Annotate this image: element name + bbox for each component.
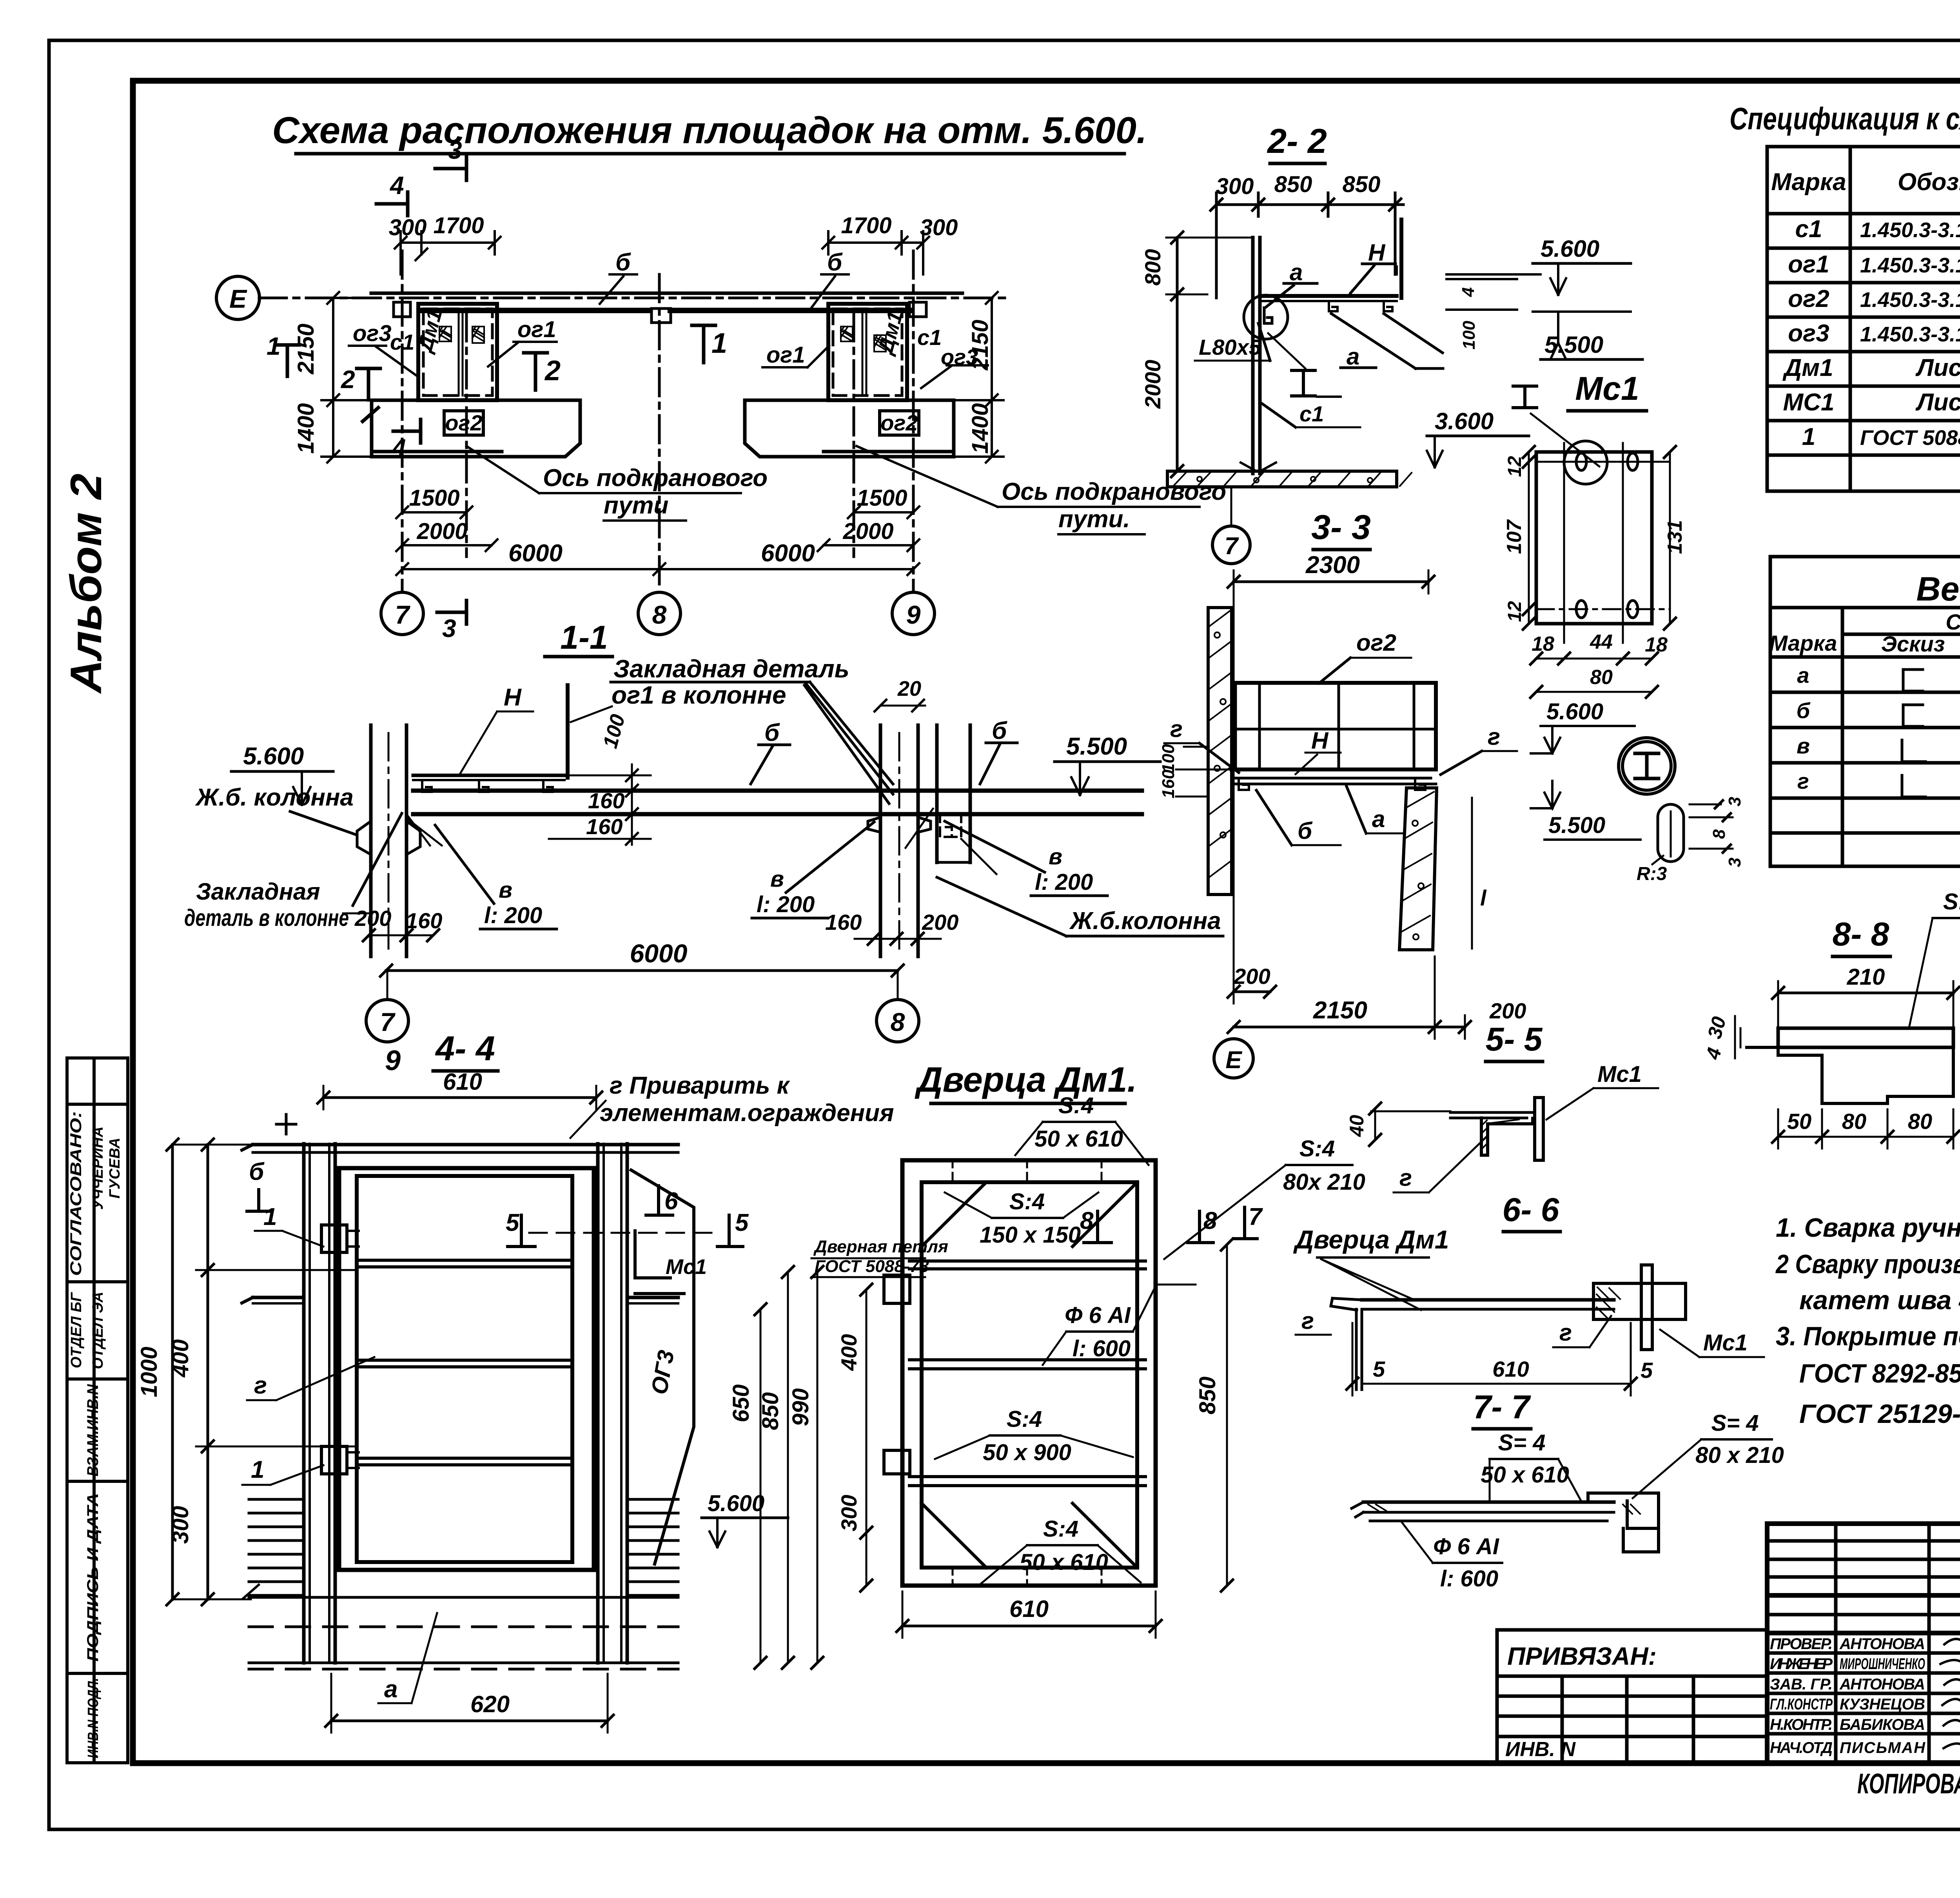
svg-text:ПРОВЕР.: ПРОВЕР. — [1770, 1635, 1833, 1653]
section flag 3 top — [435, 157, 466, 180]
vedomost sketches — [1902, 670, 1926, 797]
svg-text:5.500: 5.500 — [1066, 733, 1127, 760]
svg-text:АНТОНОВА: АНТОНОВА — [1839, 1676, 1925, 1693]
svg-text:пути.: пути. — [1058, 506, 1130, 533]
svg-text:S:4: S:4 — [1043, 1516, 1078, 1542]
svg-text:2000: 2000 — [416, 519, 467, 544]
svg-text:АНТОНОВА: АНТОНОВА — [1839, 1635, 1925, 1653]
svg-text:1.450.3-3.1 5.1.0.1.0: 1.450.3-3.1 5.1.0.1.0 — [1860, 323, 1960, 346]
svg-text:7: 7 — [395, 600, 411, 629]
svg-text:1000: 1000 — [136, 1346, 162, 1397]
I section mark — [1513, 386, 1537, 408]
svg-text:г: г — [1559, 1319, 1572, 1346]
svg-text:Спецификация к схеме расположе: Спецификация к схеме расположения площад… — [1730, 101, 1960, 136]
crane rail axis right — [853, 314, 855, 557]
vertical dim 2150/1400 right — [991, 298, 993, 457]
svg-text:8: 8 — [652, 600, 667, 629]
dash marks top/bottom bands — [953, 1160, 1102, 1586]
left platform dashed inner — [423, 309, 492, 396]
privyazan block — [1497, 1630, 1767, 1763]
svg-text:850: 850 — [1274, 172, 1312, 197]
circle E — [1214, 1039, 1253, 1078]
svg-text:ог3: ог3 — [353, 321, 392, 346]
svg-text:300: 300 — [1216, 174, 1254, 199]
svg-text:ГОСТ 25129- 82.: ГОСТ 25129- 82. — [1799, 1399, 1960, 1429]
svg-text:L80х5: L80х5 — [1199, 335, 1261, 359]
ladder rungs left — [249, 1499, 304, 1595]
right platform outer — [828, 304, 907, 400]
top rail — [253, 1143, 678, 1147]
svg-text:44: 44 — [1590, 631, 1613, 653]
dim 2000 left — [402, 544, 492, 546]
grid line E — [259, 297, 1011, 299]
svg-text:Дверца Дм1.: Дверца Дм1. — [915, 1060, 1137, 1100]
svg-text:160: 160 — [586, 814, 622, 839]
axis 8 — [658, 274, 661, 591]
svg-text:3.600: 3.600 — [1435, 408, 1494, 434]
right posts — [596, 1144, 600, 1663]
svg-text:ПРИВЯЗАН:: ПРИВЯЗАН: — [1507, 1642, 1657, 1670]
svg-text:Дверца Дм1: Дверца Дм1 — [1293, 1225, 1449, 1254]
svg-text:Ф 6 АI: Ф 6 АI — [1065, 1303, 1131, 1328]
svg-text:3: 3 — [448, 136, 462, 164]
svg-text:300: 300 — [920, 215, 958, 240]
svg-text:l: 600: l: 600 — [1073, 1336, 1131, 1361]
svg-text:1700: 1700 — [841, 213, 891, 238]
svg-text:850: 850 — [1195, 1377, 1220, 1415]
dims 5 610 5 — [1364, 1383, 1631, 1385]
left column — [369, 725, 373, 956]
svg-text:50 х 610: 50 х 610 — [1481, 1462, 1569, 1488]
svg-text:б: б — [249, 1158, 265, 1185]
angle bracket hatched — [1450, 1112, 1533, 1118]
signatures scribbles — [1940, 1638, 1960, 1749]
svg-text:Схема расположения площадок на: Схема расположения площадок на отм. 5.60… — [272, 109, 1147, 151]
circle 7 — [366, 1000, 408, 1042]
svg-text:1: 1 — [267, 332, 281, 360]
svg-text:б: б — [615, 249, 631, 276]
svg-text:ГУСЕВА: ГУСЕВА — [107, 1138, 123, 1198]
svg-text:Ж.б.колонна: Ж.б.колонна — [1069, 907, 1221, 934]
svg-text:2000: 2000 — [1140, 360, 1165, 409]
svg-text:ГОСТ 8292-85 за 2раза по грунт: ГОСТ 8292-85 за 2раза по грунтовке ГФ 02… — [1799, 1359, 1960, 1388]
svg-text:200: 200 — [1233, 964, 1270, 989]
right lower platform og2 — [745, 400, 954, 457]
svg-text:5.600: 5.600 — [243, 743, 304, 770]
svg-text:МИРОШНИЧЕНКО: МИРОШНИЧЕНКО — [1840, 1655, 1925, 1673]
dim 210 — [1778, 992, 1953, 994]
mc1 plate — [1535, 1098, 1543, 1160]
left angle — [1331, 1298, 1362, 1310]
svg-text:Лист 14: Лист 14 — [1915, 354, 1960, 381]
svg-text:ВЗАМ.ИНВ.N: ВЗАМ.ИНВ.N — [84, 1384, 102, 1476]
svg-text:5.600: 5.600 — [1546, 699, 1603, 724]
dim 1700/300 right — [828, 241, 923, 244]
svg-text:12: 12 — [1504, 456, 1525, 477]
svg-text:ПОДПИСЬ И ДАТА: ПОДПИСЬ И ДАТА — [84, 1493, 102, 1662]
svg-text:в: в — [1049, 844, 1062, 869]
svg-text:Обозначение: Обозначение — [1898, 169, 1960, 196]
svg-text:Н.КОНТР.: Н.КОНТР. — [1770, 1716, 1833, 1733]
svg-text:l: 200: l: 200 — [484, 903, 542, 928]
svg-text:1.450.3-3.1 3.1.0.1.0 -01: 1.450.3-3.1 3.1.0.1.0 -01 — [1860, 218, 1960, 242]
svg-text:Альбом 2: Альбом 2 — [62, 474, 111, 694]
plate layers — [1363, 1501, 1614, 1504]
svg-text:80: 80 — [1590, 666, 1613, 689]
corbel details left — [357, 821, 420, 855]
stremyanka post — [1251, 238, 1255, 474]
svg-text:S= 4: S= 4 — [1498, 1430, 1546, 1455]
svg-text:МС1: МС1 — [1783, 389, 1835, 416]
bottom dim 610 — [902, 1625, 1156, 1628]
svg-text:ог3: ог3 — [1788, 320, 1829, 347]
svg-text:8: 8 — [1710, 829, 1729, 839]
svg-text:80: 80 — [1908, 1109, 1932, 1134]
svg-text:S:4: S:4 — [1058, 1093, 1094, 1118]
section flag 2 lower left — [363, 408, 378, 421]
svg-text:Лист 14: Лист 14 — [1915, 389, 1960, 416]
svg-text:5.500: 5.500 — [1548, 813, 1605, 838]
left stamp column — [67, 1058, 128, 1763]
small ticks upper left — [276, 1114, 296, 1134]
dim 6000 — [386, 969, 898, 972]
axis 9 — [912, 251, 915, 591]
svg-text:Н: Н — [1368, 240, 1386, 266]
crane rail axis left — [465, 314, 468, 557]
svg-text:210: 210 — [1847, 964, 1885, 990]
plan dimensions — [267, 136, 1004, 642]
svg-text:1: 1 — [251, 1456, 264, 1483]
rails to left of posts — [253, 1296, 304, 1299]
svg-text:1400: 1400 — [293, 403, 319, 454]
svg-text:2150: 2150 — [1313, 997, 1367, 1024]
svg-text:1: 1 — [263, 1203, 277, 1230]
svg-text:610: 610 — [443, 1069, 482, 1095]
svg-text:БАБИКОВА: БАБИКОВА — [1840, 1716, 1925, 1733]
c-channel clips — [422, 780, 553, 792]
svg-text:9: 9 — [385, 1045, 401, 1076]
column below — [1399, 788, 1437, 950]
hatch squares right — [841, 327, 886, 352]
svg-text:6000: 6000 — [761, 540, 815, 567]
plan labels — [349, 249, 1226, 534]
svg-text:200: 200 — [1489, 998, 1526, 1023]
svg-text:3: 3 — [442, 614, 456, 642]
svg-text:Н: Н — [1311, 728, 1329, 754]
svg-text:6000: 6000 — [630, 939, 688, 968]
svg-text:S:4: S:4 — [1299, 1136, 1335, 1161]
circled I-beam symbol — [1619, 738, 1675, 794]
svg-text:НАЧ.ОТД: НАЧ.ОТД — [1770, 1739, 1833, 1756]
svg-text:Закладная: Закладная — [196, 878, 320, 905]
top plate — [1778, 1028, 1953, 1047]
svg-text:г Приварить к: г Приварить к — [610, 1072, 790, 1099]
svg-text:2000: 2000 — [842, 519, 893, 544]
svg-text:Е: Е — [1225, 1047, 1242, 1074]
plate — [1536, 452, 1652, 624]
svg-text:1500: 1500 — [409, 485, 459, 511]
svg-text:6: 6 — [664, 1188, 678, 1215]
svg-text:12: 12 — [1504, 601, 1525, 622]
right notch — [909, 302, 926, 317]
svg-text:ог2: ог2 — [1356, 630, 1396, 656]
svg-text:990: 990 — [788, 1388, 813, 1426]
left notch — [394, 302, 410, 317]
hinges — [884, 1275, 910, 1303]
svg-text:деталь в колонне: деталь в колонне — [184, 905, 349, 931]
svg-text:ИНВ.N ПОДЛ.: ИНВ.N ПОДЛ. — [85, 1678, 102, 1758]
left small dims — [1176, 769, 1232, 771]
bottom dims — [1234, 991, 1270, 993]
dim 1500 right — [854, 511, 913, 514]
specification table — [1767, 147, 1960, 491]
level marks 5.600/5.500 под МС1 — [1531, 699, 1641, 840]
platform 2-2 — [1260, 294, 1397, 298]
svg-text:160: 160 — [825, 910, 862, 934]
svg-text:Ось подкранового: Ось подкранового — [543, 465, 768, 492]
mc1 bracket top right — [635, 1231, 670, 1278]
svg-text:S= 4: S= 4 — [1711, 1410, 1759, 1436]
svg-text:Ф 6 АI: Ф 6 АI — [1433, 1534, 1500, 1559]
svg-text:Сечение: Сечение — [1945, 610, 1960, 634]
hatch squares left — [439, 327, 484, 343]
svg-text:ГЛ.КОНСТР: ГЛ.КОНСТР — [1770, 1696, 1833, 1713]
svg-text:2- 2: 2- 2 — [1267, 122, 1327, 160]
svg-text:а: а — [1290, 259, 1303, 285]
svg-text:6000: 6000 — [508, 540, 563, 567]
svg-text:300: 300 — [168, 1506, 193, 1544]
right step block — [1588, 1493, 1659, 1552]
center notch — [652, 308, 671, 323]
svg-text:2: 2 — [544, 355, 561, 386]
svg-text:50: 50 — [1787, 1109, 1811, 1134]
svg-text:850: 850 — [1343, 172, 1381, 197]
svg-text:7: 7 — [380, 1007, 396, 1036]
platform rail top left — [413, 774, 564, 777]
left lower platform og2 — [372, 400, 580, 457]
wall hatched — [1208, 608, 1232, 895]
svg-text:5.600: 5.600 — [708, 1491, 764, 1516]
svg-text:1.450.3-3.1 5.1.0 1.0 -04: 1.450.3-3.1 5.1.0 1.0 -04 — [1860, 288, 1960, 312]
svg-text:5.500: 5.500 — [1544, 332, 1603, 358]
svg-text:элементам.ограждения: элементам.ограждения — [600, 1100, 894, 1127]
svg-text:100: 100 — [1459, 321, 1479, 350]
svg-text:80: 80 — [1842, 1109, 1866, 1134]
svg-text:8- 8: 8- 8 — [1833, 916, 1889, 953]
svg-text:R:3: R:3 — [1637, 864, 1667, 884]
svg-text:б: б — [992, 717, 1007, 744]
svg-text:Эскиз: Эскиз — [1881, 631, 1945, 656]
svg-text:Мс1: Мс1 — [1597, 1062, 1642, 1087]
svg-text:ИНВ. N: ИНВ. N — [1505, 1738, 1576, 1761]
svg-text:ПИСЬМАН: ПИСЬМАН — [1840, 1739, 1926, 1756]
svg-text:в: в — [770, 866, 784, 892]
svg-text:1.450.3-3.1 5.1.0.1.0-05: 1.450.3-3.1 5.1.0.1.0-05 — [1860, 254, 1960, 277]
right assembly — [1593, 1283, 1686, 1319]
svg-text:7- 7: 7- 7 — [1473, 1388, 1531, 1425]
svg-text:2: 2 — [341, 365, 355, 394]
dim 610 top — [323, 1096, 596, 1099]
svg-text:850: 850 — [758, 1392, 783, 1430]
svg-text:г: г — [1797, 769, 1809, 793]
svg-text:610: 610 — [1009, 1596, 1049, 1622]
left dims — [207, 1145, 209, 1599]
svg-text:4: 4 — [391, 434, 406, 462]
beam 1-1 — [413, 789, 1142, 793]
svg-text:ог1: ог1 — [766, 342, 805, 368]
svg-text:4: 4 — [1459, 287, 1478, 297]
corbel right — [868, 817, 931, 832]
og2 label box right — [880, 411, 919, 435]
svg-text:S:4: S:4 — [1009, 1189, 1045, 1214]
II symbol — [1292, 370, 1315, 396]
svg-text:а: а — [1347, 343, 1359, 370]
ladder rungs right — [627, 1499, 678, 1595]
svg-text:катет шва 4мм.: катет шва 4мм. — [1799, 1285, 1960, 1315]
svg-text:Мс1: Мс1 — [666, 1255, 707, 1279]
svg-text:1-1: 1-1 — [560, 619, 608, 656]
dim 620 bottom — [331, 1720, 608, 1722]
corner diagonals — [922, 1182, 1137, 1568]
og2 label box left — [444, 411, 483, 435]
section flag 3 bottom — [437, 601, 466, 624]
svg-text:ог1 в колонне: ог1 в колонне — [612, 681, 786, 709]
svg-text:ЗАВ. ГР.: ЗАВ. ГР. — [1770, 1676, 1833, 1693]
svg-text:3: 3 — [1725, 797, 1744, 806]
svg-text:г: г — [1170, 716, 1183, 742]
svg-text:ИНЖЕНЕР: ИНЖЕНЕР — [1770, 1655, 1833, 1673]
svg-text:5: 5 — [735, 1209, 749, 1236]
svg-text:800: 800 — [1140, 249, 1165, 285]
40 dim — [1374, 1109, 1376, 1140]
svg-text:Ведомость элементов: Ведомость элементов — [1916, 570, 1960, 608]
door outer — [902, 1160, 1156, 1586]
svg-text:5.600: 5.600 — [1541, 236, 1599, 262]
left platform outer — [418, 304, 497, 400]
svg-text:1: 1 — [1802, 423, 1815, 450]
plate — [1362, 1298, 1614, 1302]
svg-text:г: г — [1399, 1165, 1412, 1191]
diagonal braces — [1331, 314, 1443, 368]
svg-text:г: г — [1301, 1308, 1314, 1334]
section flag 1 left — [276, 345, 299, 376]
bottom dashed region — [249, 1596, 678, 1599]
svg-text:150 х 150: 150 х 150 — [980, 1222, 1081, 1248]
svg-text:8: 8 — [1080, 1207, 1094, 1234]
svg-text:с1: с1 — [1299, 401, 1324, 426]
right dim 850 + 400/300 left — [1226, 1245, 1228, 1586]
horizontal strips — [909, 1259, 1145, 1263]
svg-text:S:4: S:4 — [1007, 1406, 1042, 1432]
svg-text:200: 200 — [922, 910, 958, 934]
svg-text:4: 4 — [389, 171, 404, 200]
svg-text:l: 200: l: 200 — [1035, 869, 1093, 895]
svg-text:Мс1: Мс1 — [1703, 1330, 1748, 1355]
svg-text:50 х 900: 50 х 900 — [983, 1440, 1071, 1465]
svg-text:620: 620 — [470, 1691, 510, 1717]
floor slab — [1167, 471, 1397, 487]
svg-text:20: 20 — [897, 677, 921, 700]
right dims group — [760, 1309, 762, 1663]
svg-text:5: 5 — [1641, 1358, 1653, 1383]
platform deck — [1232, 768, 1436, 771]
svg-text:ГОСТ 5088-78: ГОСТ 5088-78 — [1860, 426, 1960, 450]
dim 2000 right — [824, 544, 913, 546]
grid circle 9 — [892, 592, 935, 635]
holes — [1576, 453, 1586, 470]
svg-text:200: 200 — [354, 906, 391, 931]
svg-text:в: в — [499, 877, 512, 903]
svg-text:ог2: ог2 — [445, 410, 482, 435]
svg-text:пути: пути — [604, 492, 668, 519]
svg-text:1. Сварка ручная дуговая ГОСТ: 1. Сварка ручная дуговая ГОСТ 5264-80. — [1776, 1213, 1960, 1243]
svg-text:1500: 1500 — [857, 485, 907, 511]
svg-text:3. Покрытие поверхностей: масл: 3. Покрытие поверхностей: масляная краск… — [1776, 1321, 1960, 1351]
svg-text:300: 300 — [837, 1495, 861, 1531]
right vertical bar — [1396, 267, 1398, 274]
svg-text:50 х 610: 50 х 610 — [1020, 1550, 1108, 1575]
svg-text:Мс1: Мс1 — [1575, 370, 1639, 407]
svg-text:ог1: ог1 — [517, 317, 556, 342]
svg-text:80х 210: 80х 210 — [1283, 1169, 1365, 1195]
dim 2300 — [1234, 581, 1428, 583]
svg-text:50 х 610: 50 х 610 — [1034, 1126, 1123, 1152]
svg-text:с1: с1 — [1795, 216, 1822, 243]
svg-text:5: 5 — [1373, 1357, 1385, 1381]
grid circle 7 — [381, 592, 423, 635]
svg-text:в: в — [1797, 733, 1810, 758]
svg-text:ог2: ог2 — [1788, 285, 1829, 312]
dim 1500 left — [402, 511, 466, 514]
svg-text:УЧЧЕРИНА: УЧЧЕРИНА — [90, 1127, 106, 1210]
second column right of axis 8 — [935, 725, 939, 862]
door frame — [339, 1168, 594, 1570]
svg-text:S: 4: S: 4 — [1943, 889, 1960, 915]
svg-text:5: 5 — [506, 1209, 520, 1236]
svg-text:КУЗНЕЦОВ: КУЗНЕЦОВ — [1840, 1696, 1925, 1713]
svg-text:б: б — [1797, 698, 1811, 723]
section flag 4 lower — [393, 419, 421, 443]
vertical dim 2150/1400 left — [332, 298, 334, 457]
svg-text:ог1: ог1 — [1788, 251, 1829, 278]
top beam line b — [371, 292, 962, 295]
svg-text:1: 1 — [711, 328, 727, 359]
svg-text:7: 7 — [1225, 533, 1239, 560]
og1 plate vertical — [566, 685, 570, 778]
svg-text:100: 100 — [1159, 744, 1178, 773]
dims 300 850 850 — [1216, 203, 1403, 206]
svg-text:а: а — [1797, 663, 1809, 688]
svg-text:Е: Е — [229, 284, 247, 313]
inner horizontal bars — [357, 1259, 572, 1262]
grid circle E — [216, 276, 260, 319]
right platform dashed inner — [833, 309, 902, 396]
og3 post right — [631, 1170, 694, 1564]
svg-text:б: б — [1298, 818, 1313, 844]
section mark T2 — [524, 353, 547, 390]
axis 7 — [401, 251, 404, 591]
axis to circle 7 — [1230, 487, 1232, 525]
svg-text:131: 131 — [1664, 520, 1686, 554]
svg-text:г: г — [254, 1372, 267, 1399]
railing og2 — [1236, 681, 1436, 685]
section mark T1 — [692, 325, 715, 363]
svg-text:9: 9 — [906, 600, 921, 629]
title block — [1767, 1524, 1960, 1763]
svg-text:7: 7 — [1249, 1203, 1263, 1230]
svg-text:а: а — [384, 1676, 397, 1703]
step — [1747, 1047, 1953, 1103]
